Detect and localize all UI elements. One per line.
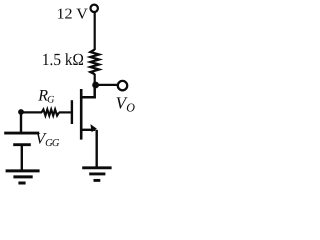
svg-text:12 V: 12 V xyxy=(57,7,89,23)
svg-text:VGG: VGG xyxy=(35,131,59,150)
svg-text:RG: RG xyxy=(37,88,54,106)
svg-text:VO: VO xyxy=(116,93,136,114)
svg-text:1.5 kΩ: 1.5 kΩ xyxy=(42,50,84,69)
